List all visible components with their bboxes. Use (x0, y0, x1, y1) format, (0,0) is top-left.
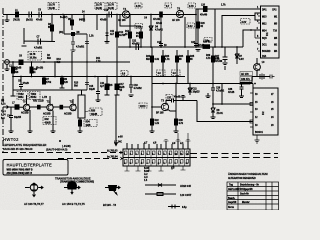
wire x213 upper (212, 47, 214, 84)
svg-text:10.78: 10.78 (49, 5, 55, 7)
svg-text:R29: R29 (206, 55, 211, 57)
svg-text:DC1: DC1 (262, 45, 267, 47)
svg-text:4.7n/B2: 4.7n/B2 (216, 90, 225, 93)
resistor R23 (162, 56, 165, 62)
svg-text:1.7k: 1.7k (221, 5, 226, 7)
svg-text:R26: R26 (201, 23, 206, 25)
svg-text:Prüfgeprüft: Prüfgeprüft (240, 188, 253, 191)
capacitor C30 group (223, 47, 228, 65)
IC2 ground stub (255, 135, 260, 143)
svg-text:(A): (A) (1, 99, 4, 102)
label stack left of T4 (240, 72, 253, 76)
wire drop x31 (31, 62, 33, 77)
svg-text:R13: R13 (74, 83, 79, 85)
svg-text:AC 153 B T1,T2,T5: AC 153 B T1,T2,T5 (62, 202, 85, 206)
antenna coil circle (5, 60, 10, 65)
wire drop x196 capacitor C24 (194, 15, 198, 48)
wire T2 emitter drop (184, 17, 186, 47)
svg-text:4.7k: 4.7k (179, 122, 184, 125)
svg-text:4.7n/42: 4.7n/42 (155, 29, 164, 32)
wire x188 (187, 50, 189, 84)
svg-text:HAUPTLEITERPLATTE: HAUPTLEITERPLATTE (7, 163, 52, 168)
wire y41 branch (22, 28, 56, 46)
transistor T4 (254, 64, 261, 71)
end capacitor (270, 75, 275, 79)
svg-text:L.7B: L.7B (42, 97, 47, 99)
wire rail2 (118, 46, 243, 48)
svg-text:3.3V: 3.3V (239, 59, 244, 61)
resistor R6 (12, 67, 15, 73)
wire drop x198 resistor R26 (197, 9, 199, 47)
svg-text:47n/B2: 47n/B2 (132, 43, 140, 46)
svg-text:1.7k: 1.7k (215, 59, 220, 61)
svg-text:C12: C12 (119, 32, 124, 34)
svg-text:1.7k: 1.7k (165, 59, 170, 61)
svg-text:Bezeichnung - Nr: Bezeichnung - Nr (240, 185, 259, 187)
svg-text:64/B2: 64/B2 (79, 19, 86, 22)
svg-text:C14: C14 (7, 115, 12, 118)
svg-text:(7k13): (7k13) (13, 20, 20, 22)
svg-text:R28 82: R28 82 (203, 42, 211, 44)
dashed pair out right (190, 154, 278, 158)
svg-text:(TRANSISTOR CONNECTIONS): (TRANSISTOR CONNECTIONS) (60, 181, 94, 184)
svg-text:1.2k: 1.2k (89, 36, 94, 38)
dashed pair into connector (2, 152, 122, 154)
capacitor C13b on x87 (85, 34, 89, 90)
wire T5-T6 (30, 106, 47, 108)
wire drop x215 (214, 9, 216, 47)
svg-text:HWT02: HWT02 (3, 137, 19, 142)
svg-text:10.78: 10.78 (108, 5, 114, 7)
svg-text:47n/40: 47n/40 (200, 14, 208, 17)
wire x225 lower (224, 66, 226, 70)
svg-text:41k/B: 41k/B (45, 122, 51, 125)
capacitor C12 (116, 32, 119, 37)
wire x13 to ground (11, 77, 16, 97)
svg-text:b1.702.03: b1.702.03 (107, 151, 118, 153)
resistor R36 (78, 118, 83, 133)
wire drop x72 (71, 15, 73, 31)
IC2 pin ticks (250, 93, 253, 127)
wire rail3 B+ lower (3, 61, 130, 63)
svg-text:HRM 045: HRM 045 (180, 184, 192, 188)
wire drop x131 to ground (129, 77, 134, 97)
svg-text:BOSC1: BOSC1 (255, 132, 264, 134)
svg-text:TA x: TA x (1, 110, 6, 113)
svg-text:B.05: B.05 (144, 168, 150, 170)
wire rail4 (13, 76, 186, 78)
capacitor C28 (211, 84, 222, 105)
wire drop x107b to ground (105, 77, 110, 96)
wire drop x130 (129, 15, 131, 48)
svg-text:D65x: D65x (18, 97, 24, 99)
wire T4 emitter to filter wire (252, 70, 270, 83)
svg-text:TD52: TD52 (31, 94, 37, 96)
electrolytic C15 (105, 84, 109, 90)
svg-text:Sach-Nr: Sach-Nr (240, 194, 249, 196)
svg-text:10.78: 10.78 (30, 54, 36, 56)
svg-text:41k/B: 41k/B (91, 113, 97, 116)
capacitor C14 electrolytic (9, 107, 14, 133)
diode D30 (235, 47, 239, 64)
svg-text:120 C05T: 120 C05T (180, 193, 192, 197)
wire drop x55 (54, 62, 56, 77)
svg-text:AF 178: AF 178 (241, 73, 249, 76)
resistor R3 (51, 25, 54, 31)
svg-text:C16: C16 (157, 42, 162, 44)
svg-text:M14: M14 (262, 30, 267, 33)
wire T5 emitter to ground (28, 110, 33, 133)
svg-text:CP2: CP2 (272, 10, 277, 12)
connector top stubs (127, 141, 188, 149)
wire drop x107 to ground (105, 15, 110, 44)
svg-text:47n/B: 47n/B (228, 91, 235, 94)
svg-text:R11: R11 (96, 58, 101, 60)
wire drop x52 (51, 15, 53, 42)
capacitor C11 (106, 33, 109, 36)
transistor T1 (122, 11, 129, 18)
inductor bead L5 (72, 33, 75, 36)
ground below coil (5, 65, 10, 71)
svg-text:B+(4V): B+(4V) (60, 16, 68, 19)
dashed box texts (18, 5, 247, 116)
svg-text:R25: R25 (190, 56, 195, 58)
svg-text:1k/B: 1k/B (86, 125, 91, 127)
svg-text:A53 (4560-7000) HWF B: A53 (4560-7000) HWF B (7, 172, 33, 175)
svg-text:6.3k: 6.3k (155, 59, 160, 61)
svg-text:R34: R34 (86, 121, 91, 124)
svg-text:ALTERATION RESERVED: ALTERATION RESERVED (228, 177, 256, 180)
svg-text:10.30: 10.30 (108, 8, 114, 10)
svg-text:4.7n/B2: 4.7n/B2 (76, 46, 85, 49)
svg-text:ÄNDERUNGEN VORBEHALTEN!: ÄNDERUNGEN VORBEHALTEN! (228, 172, 268, 176)
wire x177 (176, 50, 178, 84)
text stack below connector (144, 168, 150, 182)
svg-text:LK.14C: LK.14C (114, 141, 122, 144)
svg-text:AF 178: AF 178 (172, 19, 180, 22)
svg-text:0.78: 0.78 (136, 6, 141, 8)
svg-text:R10: R10 (33, 69, 38, 71)
transistor T2 (176, 10, 183, 17)
legend wire styles (145, 184, 180, 209)
bottom-left titles (3, 137, 67, 152)
wire x116 arrow down to connector (115, 95, 118, 146)
wire y34 branch (64, 15, 87, 35)
svg-text:R23: R23 (165, 56, 170, 58)
wire drop x72b (71, 52, 73, 90)
svg-text:47n/B: 47n/B (198, 44, 205, 47)
connector box (123, 149, 190, 166)
capacitor C9 with ground (71, 34, 76, 52)
capacitor C10 (109, 12, 112, 18)
capacitor C13 (96, 77, 101, 102)
capacitor C3 (39, 12, 42, 18)
inductor L1 (16, 12, 19, 17)
legend transistor 3 (105, 186, 120, 195)
svg-text:6µ/B: 6µ/B (120, 87, 125, 89)
svg-text:222C: 222C (140, 106, 146, 108)
svg-text:4.7n/B2: 4.7n/B2 (34, 47, 43, 50)
svg-text:(5x32): (5x32) (26, 20, 33, 22)
svg-text:R12: R12 (125, 31, 130, 33)
wire y104 to IC2 (213, 103, 253, 105)
hauptleiterplatte box (3, 160, 68, 176)
svg-text:10.30: 10.30 (96, 8, 102, 10)
ground stub up at x183 (181, 96, 186, 101)
svg-text:C39 47n: C39 47n (241, 78, 250, 81)
ground bars above connector (164, 133, 191, 141)
svg-text:AF 106: AF 106 (118, 19, 126, 22)
svg-text:DP1: DP1 (262, 10, 267, 12)
svg-text:R21: R21 (146, 56, 151, 58)
wire x152 to connector (150, 84, 155, 133)
antenna input arrow (3, 106, 9, 109)
wire x222 drop (221, 92, 223, 104)
wire drop x97 (96, 15, 98, 31)
component value labels (1, 5, 265, 170)
wire rail5 (152, 84, 253, 89)
wire T6-T7 (53, 106, 70, 108)
capacitor C38 (239, 83, 252, 98)
IC2 pin squares (250, 103, 253, 106)
resistor R24 (176, 56, 179, 62)
wire IC1 pin stub (255, 16, 261, 21)
resistor R14 (140, 32, 143, 38)
svg-text:AC15B: AC15B (43, 113, 51, 116)
wire x152 column (151, 47, 153, 84)
svg-text:Bearb.: Bearb. (228, 198, 236, 200)
IC1 pin ticks (255, 9, 261, 51)
svg-text:BD5x: BD5x (31, 97, 38, 99)
wire top right step (196, 9, 261, 15)
svg-text:170k: 170k (46, 82, 52, 84)
wire T1 base drop (120, 15, 141, 48)
svg-text:10µ/15: 10µ/15 (14, 117, 22, 119)
svg-text:10.30: 10.30 (49, 8, 55, 10)
svg-text:Tag: Tag (229, 185, 234, 187)
svg-text:47n/B: 47n/B (100, 19, 107, 22)
wire top rail B+ (3, 14, 196, 16)
svg-text:0.74: 0.74 (1, 114, 6, 117)
svg-text:0.5µ: 0.5µ (182, 207, 187, 209)
title block header (228, 172, 268, 180)
svg-text:R13: R13 (57, 59, 62, 61)
svg-text:SACH-NR 45 420-760.00: SACH-NR 45 420-760.00 (3, 147, 33, 151)
svg-text:47n/42: 47n/42 (153, 18, 161, 21)
dashed label boxes top row (17, 3, 250, 127)
svg-text:M12: M12 (262, 24, 267, 26)
wire collector corner to IC2 (197, 101, 253, 122)
wire feedback to IC1 (222, 13, 261, 47)
svg-text:AC15B: AC15B (64, 113, 72, 116)
ground x208 (206, 93, 211, 98)
wire drop x84 (83, 15, 85, 23)
transistor T3 (161, 103, 168, 110)
svg-text:10µ/15: 10µ/15 (193, 92, 201, 94)
resistor R12 (129, 32, 132, 38)
svg-text:R33: R33 (91, 111, 96, 113)
svg-text:7.1k: 7.1k (96, 61, 101, 63)
svg-text:R31 C11B: R31 C11B (33, 101, 44, 103)
capacitor C27 on rail2 (136, 44, 139, 50)
svg-text:R24: R24 (179, 55, 184, 58)
ground top-left (5, 15, 10, 22)
svg-text:D14: D14 (262, 55, 267, 58)
svg-text:R27: R27 (215, 56, 220, 58)
svg-text:1.2k: 1.2k (155, 123, 160, 125)
svg-text:bu.702.04: bu.702.04 (107, 156, 118, 159)
svg-text:4.7n/B2: 4.7n/B2 (134, 87, 143, 90)
svg-text:Geprüft: Geprüft (228, 201, 237, 204)
capacitor C37 on collector wire (166, 99, 197, 104)
svg-text:(BAUT-0435-04.3): (BAUT-0435-04.3) (46, 148, 67, 152)
svg-text:47n/4: 47n/4 (156, 22, 163, 25)
transistor T6 (47, 104, 53, 110)
svg-text:C10: C10 (104, 10, 109, 12)
zener D8 (211, 104, 216, 119)
wire IC1 to T4 (256, 58, 258, 64)
wire drop x117b to ground (115, 47, 120, 95)
svg-text:z.B: z.B (171, 168, 175, 170)
svg-text:47n/B: 47n/B (174, 96, 181, 99)
svg-text:10.30x: 10.30x (30, 58, 38, 60)
IC2 box (253, 88, 278, 135)
capacitor C7 (38, 39, 41, 45)
resistor R25b (187, 56, 190, 62)
wire drop x117 (116, 15, 118, 48)
svg-text:R22: R22 (155, 120, 160, 122)
capacitor C8 (13, 77, 87, 96)
wire base T5 (8, 95, 73, 107)
wire drop x13 (12, 62, 14, 77)
inductor L16 (204, 7, 208, 12)
wire T3 base (152, 106, 161, 108)
svg-text:M23: M23 (262, 17, 267, 19)
resistor R21 (151, 56, 154, 62)
svg-text:C28: C28 (216, 88, 221, 90)
resistor R7 (43, 78, 46, 84)
IF can box (78, 95, 85, 118)
resistor R27 (212, 56, 215, 62)
title block table (227, 182, 279, 210)
svg-text:0.12: 0.12 (188, 26, 193, 28)
svg-text:47n/B: 47n/B (23, 82, 30, 85)
resistor R9 (61, 78, 64, 84)
svg-text:a-05: a-05 (118, 137, 123, 139)
border left dash-dot (2, 8, 4, 153)
svg-text:3.3V: 3.3V (242, 22, 247, 24)
svg-text:BOHRD: BOHRD (262, 51, 271, 53)
connector bottom stubs with grounds (125, 166, 186, 171)
diode D4 (149, 15, 153, 48)
diode C22 (188, 84, 192, 96)
legend transistor 2 (64, 182, 80, 194)
svg-text:BF 195: BF 195 (156, 113, 164, 115)
inductor bead on rail3 (19, 60, 23, 65)
resistor R28 on rail2 (203, 45, 210, 49)
svg-text:(44): (44) (59, 31, 63, 34)
svg-text:0.7x: 0.7x (1, 104, 6, 106)
resistor R10 (30, 67, 33, 73)
transistor T7 (70, 104, 76, 110)
ground at 198 (196, 50, 201, 52)
svg-text:C37: C37 (167, 98, 172, 100)
wire x163 (162, 50, 164, 77)
svg-text:BF195 - T3: BF195 - T3 (103, 203, 117, 207)
svg-text:C15: C15 (89, 86, 94, 88)
svg-text:0.78: 0.78 (189, 6, 194, 8)
svg-text:ZD.01: ZD.01 (217, 113, 224, 115)
svg-text:R38: R38 (179, 120, 184, 122)
connector pin numbers (124, 153, 189, 165)
legend transistor 1 (25, 183, 43, 196)
svg-text:W53 (4560-7000) HWF B: W53 (4560-7000) HWF B (7, 169, 33, 172)
svg-text:Norm: Norm (228, 207, 234, 209)
wire drop x161 capacitor C16 (159, 15, 163, 48)
svg-text:R14: R14 (136, 32, 141, 35)
svg-text:R32: R32 (45, 119, 50, 121)
svg-text:Muster: Muster (242, 201, 250, 204)
svg-text:AC15B: AC15B (21, 112, 29, 115)
wire T3 emitter x176 (168, 84, 179, 133)
svg-text:0.28: 0.28 (136, 27, 141, 29)
resistor R5 (71, 20, 74, 25)
svg-text:TD52: TD52 (18, 94, 24, 96)
resistor R22 (151, 119, 154, 125)
wire IC1 input (243, 30, 261, 47)
svg-text:SQ5: SQ5 (262, 38, 267, 40)
svg-text:C24: C24 (191, 41, 196, 44)
svg-text:LEITERPLATTE FREQUENZTEILER: LEITERPLATTE FREQUENZTEILER (3, 143, 46, 147)
svg-text:C17: C17 (120, 84, 125, 86)
svg-text:10µ/5: 10µ/5 (89, 89, 96, 91)
resistor R38 (175, 119, 178, 125)
inductor on base wire (15, 105, 19, 109)
svg-text:4.7k: 4.7k (206, 57, 211, 60)
svg-text:C21: C21 (132, 41, 137, 43)
capacitor C2 (29, 12, 32, 18)
transistor legend header (55, 176, 94, 184)
svg-text:C11: C11 (110, 31, 115, 33)
IC1 box (261, 6, 280, 58)
electrolytic C17 (115, 84, 119, 90)
transistor T5 (23, 104, 29, 110)
svg-text:47n/B: 47n/B (36, 19, 43, 22)
svg-text:C38: C38 (228, 89, 233, 91)
svg-text:C18: C18 (134, 85, 139, 87)
svg-text:B.06: B.06 (144, 171, 150, 173)
svg-text:C22: C22 (193, 89, 198, 91)
svg-text:AF 106 T6,T8,T7: AF 106 T6,T8,T7 (24, 202, 44, 206)
ceramic filter (260, 74, 264, 80)
wire T6 emitter ground (51, 111, 56, 133)
svg-text:10.78: 10.78 (96, 5, 102, 7)
svg-text:m: m (186, 163, 188, 165)
